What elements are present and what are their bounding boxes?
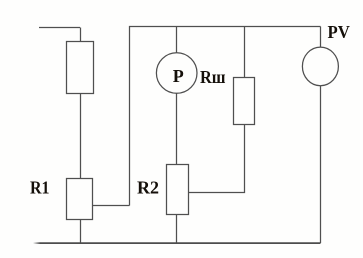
svg-text:PV: PV	[328, 22, 350, 42]
svg-text:R1: R1	[30, 177, 50, 197]
svg-text:P: P	[173, 66, 184, 86]
svg-text:R2: R2	[137, 178, 159, 198]
svg-text:Rш: Rш	[200, 67, 226, 87]
